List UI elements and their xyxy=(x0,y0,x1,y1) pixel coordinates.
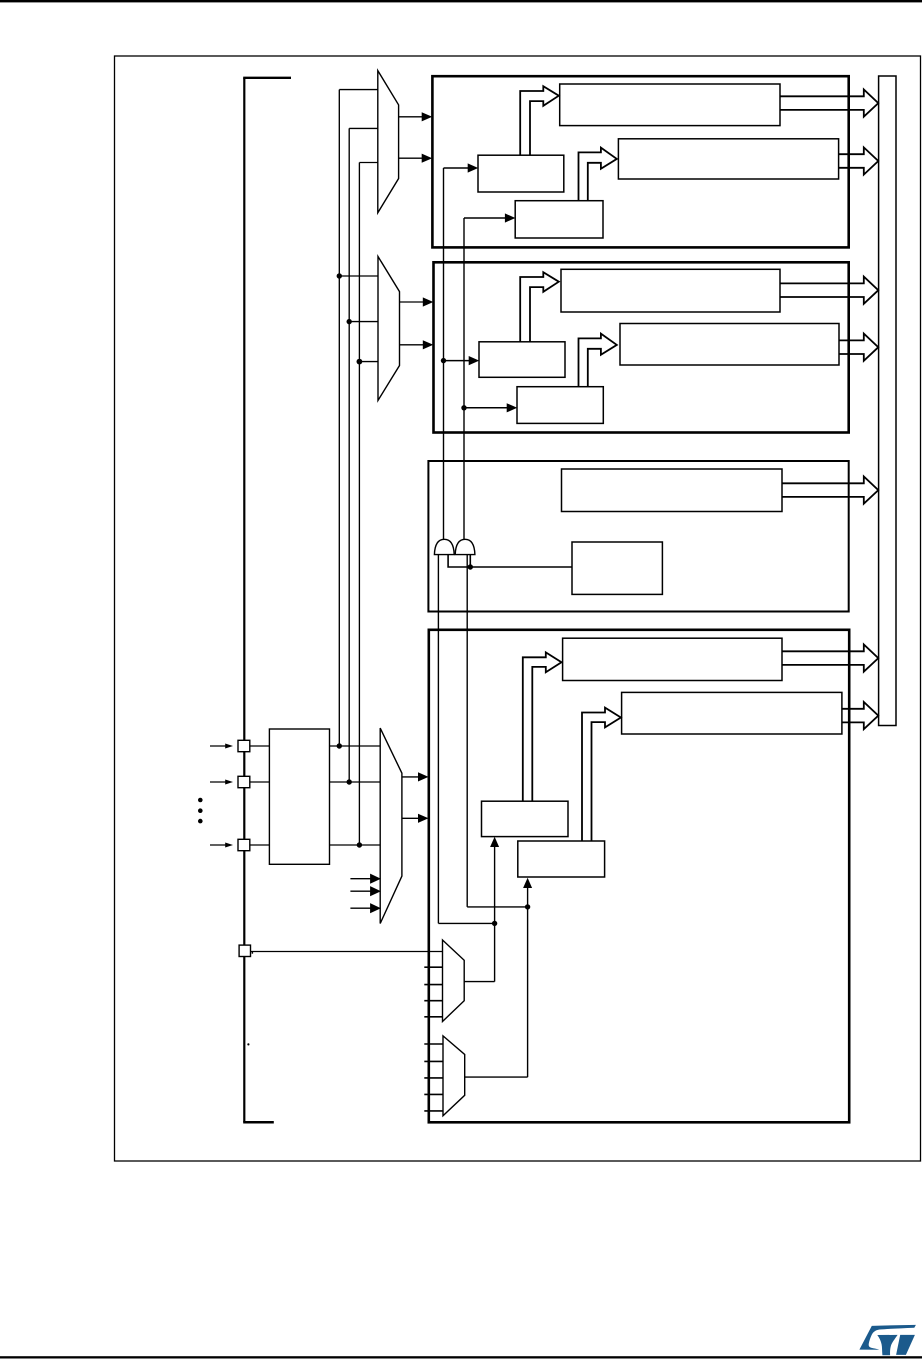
wire B1 to box1d xyxy=(464,217,506,219)
box2d xyxy=(517,387,603,424)
wire mux3 output 1 xyxy=(402,776,419,778)
hollow arrow box2a to bus bar xyxy=(780,277,878,304)
junction dot v3 bottom xyxy=(357,842,362,847)
wire pin3 to port block xyxy=(250,844,269,846)
wire v3 to mux2 input 3 xyxy=(359,361,378,363)
wire v1 to mux1 input 1 xyxy=(339,89,378,91)
block B4 xyxy=(429,630,849,1123)
block B1 xyxy=(432,76,848,247)
net A2 vertical (gate1 lower input from B4) xyxy=(437,555,439,924)
wire A2 elbow to capture net xyxy=(438,922,494,924)
wire gate1 input elbow from box3b net xyxy=(448,555,572,567)
vertical net v2 xyxy=(348,128,350,782)
wire mux1 output 2 xyxy=(399,157,423,159)
junction dot v1 mux2 xyxy=(337,273,342,278)
junction dot A2/capture xyxy=(492,921,497,926)
junction dot v2 bottom xyxy=(347,779,352,784)
wire A1 to box2c xyxy=(444,360,470,362)
vertical net v3 xyxy=(358,163,360,846)
vertical net v1 xyxy=(338,90,340,746)
hollow arrow box1b to bus bar xyxy=(839,147,879,174)
hollow arrow box4a to bus bar xyxy=(782,645,878,672)
wire mux2 output 1 xyxy=(400,301,424,303)
ellipsis dots xyxy=(198,798,203,803)
mux MUX1 xyxy=(378,71,399,213)
wire pin4 to mux4 input xyxy=(251,951,443,953)
mux4 input ticks xyxy=(424,966,442,968)
wire A1 to box1c xyxy=(444,167,469,169)
junction dot v2 mux2 xyxy=(347,319,352,324)
net A1 vertical (gate1 output up to B1/B2) xyxy=(443,168,445,540)
port block (left rectangle) xyxy=(269,729,329,864)
mux MUX4 xyxy=(443,940,465,1022)
box2b xyxy=(620,324,839,366)
hollow arrow box1a to bus bar xyxy=(780,90,878,117)
box1a xyxy=(560,84,780,126)
page top rule xyxy=(0,0,922,2)
mux5 input ticks xyxy=(424,1043,443,1045)
hollow arrow box2b to bus bar xyxy=(839,334,878,361)
box4c xyxy=(482,801,569,836)
wire port block to mux3 input 3 xyxy=(330,844,381,846)
pin1 input arrow xyxy=(210,745,227,747)
wire gate2 input stub xyxy=(469,555,471,567)
wire pin2 to port block xyxy=(250,781,269,783)
block B2 xyxy=(434,262,849,432)
junction dot v1 bottom xyxy=(337,743,342,748)
hollow arrow box4b to bus bar xyxy=(842,702,878,729)
box2a xyxy=(561,269,780,312)
hollow arrow box1d to box1b xyxy=(579,148,617,201)
junction dot v3 mux2 xyxy=(357,359,363,365)
bus line (left vertical) xyxy=(243,78,245,1123)
wire B1 to box2d xyxy=(464,407,508,409)
wire port block to mux3 input 1 xyxy=(330,745,381,747)
bus bottom foot xyxy=(243,1121,274,1124)
ST logo xyxy=(859,1325,916,1355)
hollow arrow box4c to box4a xyxy=(523,652,562,801)
box1d xyxy=(515,201,603,238)
right bus bar xyxy=(879,76,896,726)
junction dot gate net xyxy=(468,564,473,569)
wire mux2 output 2 xyxy=(400,344,424,346)
wire mux3 output 2 xyxy=(402,817,419,819)
junction dot B2/capture2 xyxy=(525,904,530,909)
capture net 2 vertical (mux5 output up to box4d) xyxy=(527,887,529,1078)
box1b xyxy=(618,139,838,179)
pin square P3 xyxy=(238,839,250,850)
block B3 xyxy=(428,461,848,612)
wire v2 to mux2 input 2 xyxy=(349,321,378,323)
pin square P2 xyxy=(238,776,250,787)
stray tick near pin4 xyxy=(252,952,253,954)
stray mark xyxy=(247,1043,249,1045)
edge gate G1 xyxy=(434,539,454,554)
outer diagram frame xyxy=(115,56,921,1161)
wire mux5 output xyxy=(465,1076,528,1078)
box2c xyxy=(479,342,565,378)
wire port block to mux3 input 2 xyxy=(330,781,381,783)
page bottom rule xyxy=(0,1356,922,1358)
junction dot A1 block2 xyxy=(441,358,446,363)
box1c xyxy=(478,155,564,192)
wire mux4 output xyxy=(464,981,494,983)
hollow arrow box2c to box2a xyxy=(520,272,559,342)
hollow arrow box4d to box4b xyxy=(582,708,621,841)
hollow arrow box1c to box1a xyxy=(520,86,559,155)
bus top foot xyxy=(243,77,291,79)
wire mux3 aux input 1 xyxy=(350,878,371,880)
box4b xyxy=(622,692,842,734)
wire mux1 output 1 xyxy=(399,116,423,118)
wire mux3 aux input 3 xyxy=(350,907,371,909)
box4d xyxy=(518,841,605,877)
hollow arrow box2d to box2b xyxy=(579,334,617,387)
pin3 input arrow xyxy=(210,844,227,846)
wire v1 to mux2 input 1 xyxy=(339,275,378,277)
hollow arrow box3a to bus bar xyxy=(782,477,878,504)
wire v2 to mux1 input 2 xyxy=(349,127,378,129)
capture net vertical (mux4 output up to box4c) xyxy=(494,846,496,982)
box3b xyxy=(572,542,662,594)
wire B2 elbow to capture net 2 xyxy=(467,906,527,908)
mux MUX3 xyxy=(380,728,402,923)
pin square P4 xyxy=(239,945,250,956)
net B2 vertical (gate2 lower input from B4) xyxy=(466,555,468,907)
box4a xyxy=(563,638,782,680)
wire mux3 aux input 2 xyxy=(350,890,371,892)
box3a xyxy=(562,469,783,512)
mux MUX2 xyxy=(378,257,400,401)
wire v3 to mux1 input 3 xyxy=(359,162,377,164)
net B1 vertical (gate2 output up to B1/B2) xyxy=(463,218,465,540)
edge gate G2 xyxy=(455,539,475,554)
pin square P1 xyxy=(238,740,250,751)
wire pin1 to port block xyxy=(250,745,269,747)
junction dot B1 block2 xyxy=(461,405,466,410)
pin2 input arrow xyxy=(210,781,227,783)
mux MUX5 xyxy=(443,1036,465,1116)
